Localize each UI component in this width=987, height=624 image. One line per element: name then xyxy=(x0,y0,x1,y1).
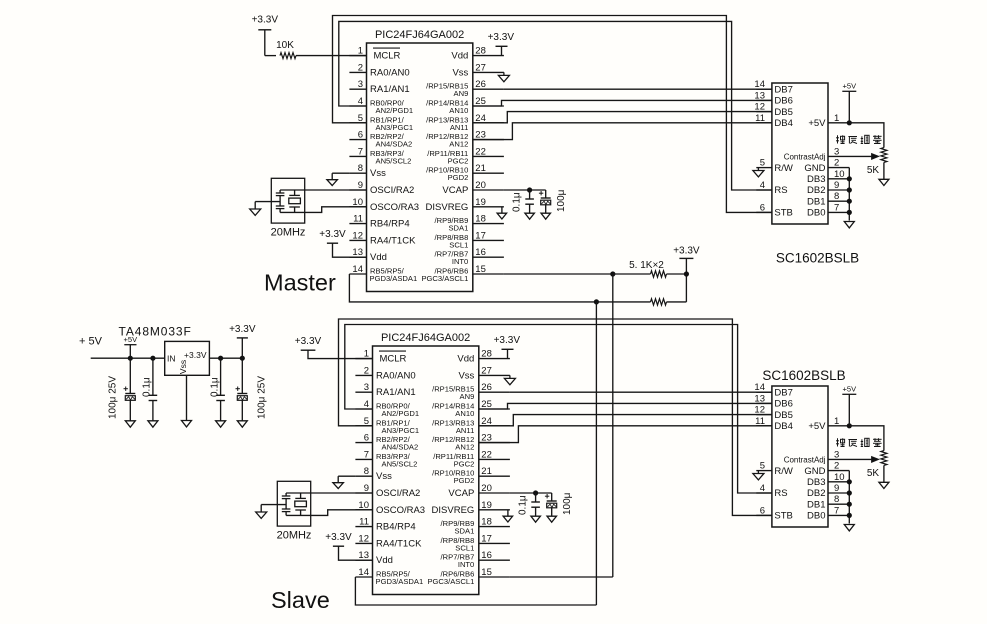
X2 (slave) internal caps + crystal xyxy=(282,493,311,515)
U1 (Master) pin 2 RA0/AN0 xyxy=(349,62,409,78)
svg-text:RB4/RP4: RB4/RP4 xyxy=(370,219,410,230)
LCD LCD1 (master) SC1602BSLB body xyxy=(772,83,859,266)
label Master xyxy=(264,270,336,296)
svg-text:27: 27 xyxy=(475,62,486,73)
U2 Vss pin8 ground xyxy=(333,476,356,488)
wire SCL net (U1 pin15 - U2 pin15) xyxy=(504,271,616,577)
LCD2 (slave) GND net + DB3-DB0 junctions xyxy=(844,471,854,531)
U1 (Master) pin 26 /RP15/RB15/AN9 xyxy=(426,79,504,98)
svg-text:Vdd: Vdd xyxy=(451,51,468,62)
LCD2 (slave) pin 6 STB xyxy=(756,505,793,521)
LCD1 (master) wire +5V to pot xyxy=(849,123,884,148)
LCD1 (master) pin 8 DB1 xyxy=(807,191,849,207)
U1 (Master) pin 1 MCLR xyxy=(349,46,400,62)
LCD1 (master) pin 9 DB2 xyxy=(807,180,849,196)
svg-text:15: 15 xyxy=(481,567,492,578)
label Slave xyxy=(271,587,330,613)
capacitor 100u (VCAP slave) xyxy=(545,492,573,522)
svg-text:7: 7 xyxy=(358,146,363,157)
wire U1 pin4 to LCD1 RS xyxy=(339,21,772,190)
U2 (Slave) pin 24 /RP13/RB13/AN11 xyxy=(432,416,510,435)
svg-text:DB0: DB0 xyxy=(807,511,825,522)
svg-text:RA0/AN0: RA0/AN0 xyxy=(376,370,416,381)
LCD2 (slave) wire +5V to pot xyxy=(849,426,884,451)
svg-text:STB: STB xyxy=(774,208,792,219)
svg-text:INT0: INT0 xyxy=(452,257,468,266)
svg-text:OSCO/RA3: OSCO/RA3 xyxy=(370,202,419,213)
U1 (Master) pin 24 /RP13/RB13/AN11 xyxy=(426,113,504,132)
U2 (Slave) pin 6 RB2/RP2//AN4/SDA2 xyxy=(355,433,418,452)
LCD1 (master) pin 7 DB0 xyxy=(807,202,849,218)
U2 DISVREG pin19 ground xyxy=(503,510,512,522)
svg-text:6: 6 xyxy=(760,505,765,516)
U2 (Slave) pin 14 RB5/RP5//PGD3/ASDA1 xyxy=(355,567,423,586)
svg-text:Vdd: Vdd xyxy=(376,555,393,566)
svg-text:AN9: AN9 xyxy=(460,392,475,401)
U1 (Master) pin 17 /RP8/RB8/SCL1 xyxy=(435,230,504,249)
X2 (slave) ground xyxy=(256,505,286,519)
svg-text:5. 1K×2: 5. 1K×2 xyxy=(629,260,664,271)
svg-text:1: 1 xyxy=(834,416,839,427)
svg-text:AN5/SCL2: AN5/SCL2 xyxy=(376,156,412,165)
svg-text:PGC3/ASCL1: PGC3/ASCL1 xyxy=(421,274,468,283)
svg-text:+3.3V: +3.3V xyxy=(319,229,346,240)
wire U2 VCAP pin20 xyxy=(510,490,552,495)
svg-text:22: 22 xyxy=(481,449,492,460)
svg-text:AN2/PGD1: AN2/PGD1 xyxy=(382,409,420,418)
IC U1 (Master) PIC24FJ64GA002 body xyxy=(367,29,473,292)
LCD1 (master) potentiometer 5K xyxy=(867,148,889,186)
U1 (Master) pin 4 RB0/RP0//AN2/PGD1 xyxy=(349,96,413,115)
U1 (Master) pin 9 OSCI/RA2 xyxy=(349,180,414,196)
LCD1 (master) pin 3 ContrastAdj xyxy=(784,146,846,161)
svg-text:SDA1: SDA1 xyxy=(454,527,474,536)
svg-text:100μ 25V: 100μ 25V xyxy=(257,376,268,419)
U2 (Slave) pin 8 Vss xyxy=(355,466,392,482)
svg-text:SDA1: SDA1 xyxy=(448,224,468,233)
svg-text:PGC2: PGC2 xyxy=(454,459,475,468)
U2 Vss pin27 ground xyxy=(504,375,515,384)
svg-text:10: 10 xyxy=(834,472,845,483)
svg-text:0.1μ: 0.1μ xyxy=(512,192,523,212)
svg-text:2: 2 xyxy=(364,365,369,376)
svg-text:100μ: 100μ xyxy=(562,492,573,515)
wire U2 pin4 to LCD2 RS xyxy=(345,325,772,494)
wire U2 pin5 to LCD2 STB xyxy=(339,319,772,515)
svg-text:12: 12 xyxy=(754,102,765,113)
svg-text:9: 9 xyxy=(834,483,839,494)
U1 (Master) pin 14 RB5/RP5//PGD3/ASDA1 xyxy=(349,264,417,283)
svg-text:3: 3 xyxy=(834,146,839,157)
svg-text:100μ 25V: 100μ 25V xyxy=(108,376,119,419)
U1 (Master) pin 16 /RP7/RB7/INT0 xyxy=(435,247,504,266)
svg-text:DB4: DB4 xyxy=(774,421,792,432)
svg-text:0.1μ: 0.1μ xyxy=(210,377,221,397)
svg-text:6: 6 xyxy=(358,130,363,141)
wire U2 pin24 to LCD2 DB5 xyxy=(479,415,772,426)
svg-text:+3.3V: +3.3V xyxy=(229,324,256,335)
svg-text:14: 14 xyxy=(358,567,369,578)
LCD1 (master) pin 12 DB5 xyxy=(754,102,792,118)
LCD1 (master) label 'KidoChousei' (brightness adj) xyxy=(836,135,882,143)
svg-text:Vss: Vss xyxy=(458,370,474,381)
U1 (Master) pin 11 RB4/RP4 xyxy=(349,214,409,230)
LCD1 (master) contrast wiper arrow xyxy=(846,154,879,160)
wire U1 pin25 to LCD1 DB6 xyxy=(473,100,772,106)
svg-text:PGC2: PGC2 xyxy=(448,156,469,165)
U1 DISVREG pin19 ground xyxy=(497,207,507,219)
svg-text:3: 3 xyxy=(358,79,363,90)
U3 Vss ground xyxy=(182,375,192,427)
capacitor 0.1u (VCAP) xyxy=(512,190,535,219)
svg-text:28: 28 xyxy=(481,349,492,360)
svg-text:20MHz: 20MHz xyxy=(271,227,306,239)
svg-text:1: 1 xyxy=(364,349,369,360)
svg-text:7: 7 xyxy=(834,202,839,213)
X1 (master) internal caps + crystal xyxy=(276,190,305,212)
svg-text:11: 11 xyxy=(755,416,765,427)
LCD2 (slave) pin 4 RS xyxy=(756,483,787,499)
svg-text:RA4/T1CK: RA4/T1CK xyxy=(376,538,422,549)
svg-text:28: 28 xyxy=(475,46,486,57)
svg-text:11: 11 xyxy=(353,214,363,225)
svg-text:DISVREG: DISVREG xyxy=(432,505,475,516)
svg-text:14: 14 xyxy=(352,264,363,275)
wire X1 to OSCO pin10 xyxy=(305,207,367,213)
svg-text:DISVREG: DISVREG xyxy=(426,202,469,213)
wire +5V input rail xyxy=(91,356,165,361)
LCD2 (slave) contrast wiper arrow xyxy=(846,457,879,463)
U1 (Master) pin 8 Vss xyxy=(349,163,386,179)
LCD2 (slave) pin 14 DB7 xyxy=(754,382,792,398)
svg-text:DB6: DB6 xyxy=(774,399,792,410)
U2 (Slave) pin 27 Vss xyxy=(458,365,509,381)
svg-text:3: 3 xyxy=(364,382,369,393)
svg-text:DB2: DB2 xyxy=(807,488,825,499)
svg-text:PIC24FJ64GA002: PIC24FJ64GA002 xyxy=(381,332,470,344)
U1 (Master) pin 7 RB3/RP3//AN5/SCL2 xyxy=(349,146,411,165)
svg-text:8: 8 xyxy=(834,191,839,202)
svg-text:Vss: Vss xyxy=(452,67,468,78)
svg-text:13: 13 xyxy=(754,393,765,404)
svg-text:AN12: AN12 xyxy=(455,443,474,452)
U1 (Master) pin 18 /RP9/RB9/SDA1 xyxy=(435,214,504,233)
U1 Vss pin8 ground xyxy=(327,173,350,185)
svg-text:21: 21 xyxy=(481,466,492,477)
svg-text:GND: GND xyxy=(804,163,825,174)
svg-text:STB: STB xyxy=(774,511,792,522)
svg-text:6: 6 xyxy=(364,433,369,444)
wire U2 pin26 to LCD2 DB7 xyxy=(510,391,772,393)
svg-text:AN2/PGD1: AN2/PGD1 xyxy=(376,106,414,115)
wire U1 pin5 to LCD1 STB xyxy=(333,16,772,213)
U1 (Master) pin 12 RA4/T1CK xyxy=(349,230,416,246)
resistor R1 10K xyxy=(265,40,367,59)
U2 (Slave) pin 21 /RP10/RB10/PGD2 xyxy=(432,466,510,485)
svg-text:DB1: DB1 xyxy=(807,499,825,510)
power +3.3V pullups xyxy=(673,246,700,302)
wire X1 to OSCI pin9 xyxy=(305,189,367,191)
svg-text:21: 21 xyxy=(475,163,486,174)
svg-text:DB4: DB4 xyxy=(774,118,792,129)
regulator U3 TA48M033F xyxy=(119,324,210,375)
svg-text:PGD2: PGD2 xyxy=(454,476,475,485)
svg-text:4: 4 xyxy=(760,180,765,191)
svg-text:SC1602BSLB: SC1602BSLB xyxy=(776,251,859,266)
svg-text:PGC3/ASCL1: PGC3/ASCL1 xyxy=(427,577,474,586)
U2 (Slave) pin 26 /RP15/RB15/AN9 xyxy=(432,382,510,401)
U1 (Master) pin 23 /RP12/RB12/AN12 xyxy=(426,130,504,149)
svg-text:Vss: Vss xyxy=(376,471,392,482)
LCD2 (slave) R/W ground xyxy=(753,471,764,480)
svg-text:AN5/SCL2: AN5/SCL2 xyxy=(382,459,418,468)
U1 (Master) pin 10 OSCO/RA3 xyxy=(349,197,419,213)
svg-text:DB2: DB2 xyxy=(807,185,825,196)
svg-text:SCL1: SCL1 xyxy=(455,543,474,552)
U1 (Master) pin 13 Vdd xyxy=(349,247,387,263)
svg-text:17: 17 xyxy=(475,230,486,241)
LCD2 (slave) pin 8 DB1 xyxy=(807,494,849,510)
LCD2 (slave) label 'KidoChousei' (brightness adj) xyxy=(836,438,882,446)
svg-text:5: 5 xyxy=(760,461,765,472)
svg-text:26: 26 xyxy=(481,382,492,393)
power +3.3V MCLR pullup (master) xyxy=(252,14,279,55)
svg-text:8: 8 xyxy=(358,163,363,174)
svg-text:DB5: DB5 xyxy=(774,107,792,118)
U1 (Master) pin 5 RB1/RP1//AN3/PGC1 xyxy=(349,113,413,132)
LCD2 (slave) pin 7 DB0 xyxy=(807,505,849,521)
U2 (Slave) pin 3 RA1/AN1 xyxy=(355,382,415,398)
svg-text:AN11: AN11 xyxy=(450,123,468,132)
resistor 5.1K (SDA pullup) xyxy=(596,299,686,305)
U2 (Slave) pin 1 MCLR xyxy=(355,349,406,365)
svg-text:+5V: +5V xyxy=(808,118,826,129)
power +3.3V U1 Vdd pin13 xyxy=(319,229,366,257)
svg-text:7: 7 xyxy=(364,449,369,460)
svg-text:AN4/SDA2: AN4/SDA2 xyxy=(376,140,413,149)
svg-text:5: 5 xyxy=(760,158,765,169)
svg-text:Vdd: Vdd xyxy=(457,354,474,365)
svg-text:16: 16 xyxy=(475,247,486,258)
svg-text:+3.3V: +3.3V xyxy=(252,14,279,25)
U1 (Master) pin 19 DISVREG xyxy=(426,197,504,213)
LCD1 (master) pin 10 DB3 xyxy=(807,169,849,185)
svg-text:+3.3V: +3.3V xyxy=(184,350,207,360)
wire U2 pin25 to LCD2 DB6 xyxy=(479,403,772,409)
LCD2 (slave) pin 1 +5V xyxy=(808,416,849,432)
LCD2 (slave) pin 9 DB2 xyxy=(807,483,849,499)
LCD1 (master) pin 4 RS xyxy=(756,180,787,196)
svg-text:8: 8 xyxy=(834,494,839,505)
svg-text:+3.3V: +3.3V xyxy=(488,32,515,43)
svg-text:0.1μ: 0.1μ xyxy=(142,377,153,397)
U2 (Slave) pin 2 RA0/AN0 xyxy=(355,365,415,381)
capacitor 100u (VCAP) xyxy=(539,189,567,219)
svg-text:Vss: Vss xyxy=(370,168,386,179)
svg-text:12: 12 xyxy=(352,230,363,241)
svg-text:7: 7 xyxy=(834,505,839,516)
svg-text:0.1μ: 0.1μ xyxy=(518,495,529,515)
U2 (Slave) pin 10 OSCO/RA3 xyxy=(355,500,425,516)
LCD1 (master) pin 6 STB xyxy=(756,202,793,218)
U2 (Slave) pin 17 /RP8/RB8/SCL1 xyxy=(441,533,510,552)
LCD1 (master) pin 5 R/W xyxy=(756,158,793,174)
power +3.3V U2 Vdd pin28 xyxy=(494,335,521,359)
U2 (Slave) pin 22 /RP11/RB11/PGC2 xyxy=(433,449,510,468)
svg-text:12: 12 xyxy=(358,533,369,544)
svg-text:RA0/AN0: RA0/AN0 xyxy=(370,67,410,78)
wire X2 to OSCI pin9 xyxy=(311,492,373,494)
svg-text:14: 14 xyxy=(754,382,765,393)
U2 (Slave) pin 16 /RP7/RB7/INT0 xyxy=(441,550,510,569)
power +3.3V U1 Vdd pin28 xyxy=(488,32,515,56)
LCD1 (master) pin 2 GND xyxy=(804,158,849,174)
svg-text:+3.3V: +3.3V xyxy=(295,336,322,347)
U2 (Slave) pin 5 RB1/RP1//AN3/PGC1 xyxy=(355,416,419,435)
svg-text:Slave: Slave xyxy=(271,587,330,613)
svg-text:AN10: AN10 xyxy=(455,409,474,418)
svg-text:VCAP: VCAP xyxy=(448,488,474,499)
svg-text:11: 11 xyxy=(755,113,765,124)
wire SDA net (U1 pin14 - U2 pin14) xyxy=(349,274,599,605)
power +5V net symbol xyxy=(124,335,138,358)
svg-text:1: 1 xyxy=(834,113,839,124)
svg-text:+3.3V: +3.3V xyxy=(494,335,521,346)
svg-text:+3.3V: +3.3V xyxy=(673,246,700,257)
svg-text:+5V: +5V xyxy=(843,81,857,90)
svg-text:100μ: 100μ xyxy=(556,189,567,212)
svg-text:DB1: DB1 xyxy=(807,196,825,207)
svg-text:22: 22 xyxy=(475,146,486,157)
resonator X2 (slave) 20MHz body xyxy=(277,481,312,541)
U2 (Slave) pin 23 /RP12/RB12/AN12 xyxy=(432,433,510,452)
U1 (Master) pin 27 Vss xyxy=(452,62,503,78)
svg-text:19: 19 xyxy=(475,197,486,208)
svg-text:27: 27 xyxy=(481,365,492,376)
svg-text:DB6: DB6 xyxy=(774,96,792,107)
U2 (Slave) pin 19 DISVREG xyxy=(432,500,510,516)
svg-text:R/W: R/W xyxy=(774,466,793,477)
wire U1 pin26 to LCD1 DB7 xyxy=(504,88,772,90)
svg-text:DB7: DB7 xyxy=(774,387,792,398)
svg-text:20: 20 xyxy=(475,180,486,191)
label +5V input xyxy=(79,336,103,348)
capacitor C1 100u 25V (input electrolytic) xyxy=(108,358,136,427)
svg-text:IN: IN xyxy=(167,354,176,364)
svg-text:RA4/T1CK: RA4/T1CK xyxy=(370,235,416,246)
power +3.3V output symbol xyxy=(229,324,256,358)
svg-text:AN3/PGC1: AN3/PGC1 xyxy=(382,426,420,435)
svg-text:2: 2 xyxy=(834,158,839,169)
svg-text:4: 4 xyxy=(760,483,765,494)
svg-text:11: 11 xyxy=(359,517,369,528)
svg-text:+ 5V: + 5V xyxy=(79,336,103,348)
capacitor C3 0.1u (output) xyxy=(210,358,226,427)
wire U1 pin23 to LCD1 DB4 xyxy=(473,123,772,140)
svg-text:Master: Master xyxy=(264,270,336,296)
U1 (Master) pin 6 RB2/RP2//AN4/SDA2 xyxy=(349,130,412,149)
U1 (Master) pin 21 /RP10/RB10/PGD2 xyxy=(426,163,504,182)
svg-text:15: 15 xyxy=(475,264,486,275)
svg-text:RS: RS xyxy=(774,488,787,499)
capacitor C4 100u 25V (output electrolytic) xyxy=(236,358,268,427)
svg-text:RB4/RP4: RB4/RP4 xyxy=(376,522,416,533)
svg-text:AN9: AN9 xyxy=(454,89,469,98)
svg-text:AN10: AN10 xyxy=(449,106,468,115)
wire U2 pin23 to LCD2 DB4 xyxy=(479,426,772,443)
svg-text:MCLR: MCLR xyxy=(380,354,407,365)
U2 (Slave) pin 18 /RP9/RB9/SDA1 xyxy=(441,517,510,536)
LCD1 (master) pin 11 DB4 xyxy=(755,113,793,129)
svg-text:+3.3V: +3.3V xyxy=(325,532,352,543)
U1 (Master) pin 28 Vdd xyxy=(451,46,504,62)
svg-text:3: 3 xyxy=(834,449,839,460)
svg-text:19: 19 xyxy=(481,500,492,511)
svg-text:TA48M033F: TA48M033F xyxy=(119,324,192,338)
U2 (Slave) pin 25 /RP14/RB14/AN10 xyxy=(432,399,510,418)
svg-text:PIC24FJ64GA002: PIC24FJ64GA002 xyxy=(375,29,464,41)
svg-text:8: 8 xyxy=(364,466,369,477)
U2 (Slave) pin 12 RA4/T1CK xyxy=(355,533,422,549)
svg-text:DB7: DB7 xyxy=(774,84,792,95)
svg-text:20MHz: 20MHz xyxy=(277,530,312,542)
svg-text:+5V: +5V xyxy=(843,384,857,393)
U1 (Master) pin 22 /RP11/RB11/PGC2 xyxy=(427,146,504,165)
svg-text:17: 17 xyxy=(481,533,492,544)
svg-text:2: 2 xyxy=(834,461,839,472)
LCD2 (slave) pin 5 R/W xyxy=(756,461,793,477)
X1 (master) ground xyxy=(250,202,280,216)
svg-text:20: 20 xyxy=(481,483,492,494)
svg-text:GND: GND xyxy=(804,466,825,477)
U2 (Slave) pin 11 RB4/RP4 xyxy=(355,517,415,533)
svg-text:12: 12 xyxy=(754,405,765,416)
LCD2 (slave) pin 3 ContrastAdj xyxy=(784,449,846,464)
svg-text:Vdd: Vdd xyxy=(370,252,387,263)
LCD1 (master) pin 1 +5V xyxy=(808,113,849,129)
LCD1 (master) GND net + DB3-DB0 junctions xyxy=(844,168,854,228)
svg-text:MCLR: MCLR xyxy=(374,51,401,62)
LCD2 (slave) +5V power symbol xyxy=(842,384,856,428)
LCD LCD2 (slave) SC1602BSLB body xyxy=(762,368,845,527)
svg-text:RA1/AN1: RA1/AN1 xyxy=(370,84,410,95)
svg-text:9: 9 xyxy=(834,180,839,191)
svg-text:18: 18 xyxy=(475,214,486,225)
power +3.3V U2 Vdd pin13 xyxy=(325,532,372,560)
svg-text:ContrastAdj: ContrastAdj xyxy=(784,153,826,162)
U2 (Slave) pin 28 Vdd xyxy=(457,349,510,365)
svg-text:RA1/AN1: RA1/AN1 xyxy=(376,387,416,398)
svg-text:1: 1 xyxy=(358,46,363,57)
LCD1 (master) pin 13 DB6 xyxy=(754,90,792,106)
U2 (Slave) pin 4 RB0/RP0//AN2/PGD1 xyxy=(355,399,419,418)
svg-text:6: 6 xyxy=(760,202,765,213)
resistor 5.1K (SCL pullup) xyxy=(613,260,687,277)
svg-text:+5V: +5V xyxy=(808,421,826,432)
wire U1 VCAP pin20 xyxy=(504,187,546,192)
U1 (Master) pin 3 RA1/AN1 xyxy=(349,79,409,95)
U1 Vss pin27 ground xyxy=(498,72,509,81)
svg-text:VCAP: VCAP xyxy=(442,185,468,196)
svg-text:5K: 5K xyxy=(867,468,880,479)
svg-text:DB5: DB5 xyxy=(774,410,792,421)
svg-text:OSCI/RA2: OSCI/RA2 xyxy=(376,488,420,499)
svg-text:14: 14 xyxy=(754,79,765,90)
U2 (Slave) pin 9 OSCI/RA2 xyxy=(355,483,420,499)
svg-text:10: 10 xyxy=(834,169,845,180)
svg-text:R/W: R/W xyxy=(774,163,793,174)
svg-text:SCL1: SCL1 xyxy=(449,240,468,249)
